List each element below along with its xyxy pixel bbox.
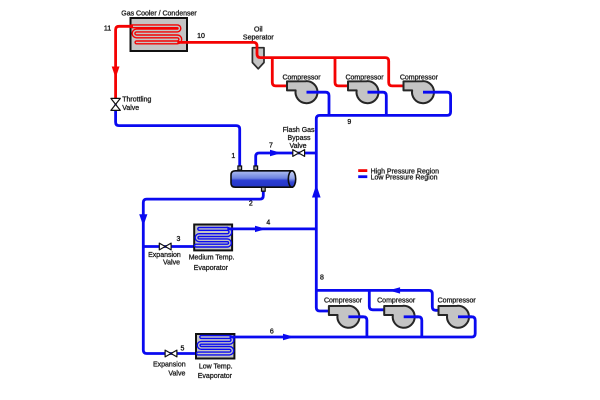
MT expansion valve XV1 xyxy=(159,243,171,250)
wire: blue MT expansion branch (node 3) xyxy=(143,245,197,248)
svg-text:Expansion: Expansion xyxy=(148,252,181,259)
svg-text:4: 4 xyxy=(266,219,270,226)
gas cooler / condenser box GC1 xyxy=(131,18,188,51)
wire: blue MT comp1 outlet drop xyxy=(307,92,330,115)
svg-text:Oil: Oil xyxy=(254,26,263,33)
wire: blue LT comp1 suction riser xyxy=(348,317,367,337)
svg-text:Bypass: Bypass xyxy=(288,135,311,142)
wire: red drop to MT compressor 1 xyxy=(272,58,291,86)
svg-text:Low Temp.: Low Temp. xyxy=(199,364,233,371)
legend swatch: low pressure xyxy=(358,175,367,178)
svg-text:Throttling: Throttling xyxy=(122,97,151,104)
wire: blue tank bottom (node 2) to left vertical down to LT branch xyxy=(143,186,263,354)
svg-text:Valve: Valve xyxy=(163,260,180,267)
wire: blue MT evap outlet node 4 to vertical xyxy=(227,227,316,230)
svg-text:Evaporator: Evaporator xyxy=(194,265,229,272)
oil separator OS1 body xyxy=(252,48,264,69)
MT compressor U3 xyxy=(404,81,434,103)
wire: blue from throttling valve to flash tank inlet (node 1) xyxy=(116,104,240,172)
wire: blue LT discharge header to node 8 vertical xyxy=(316,290,444,310)
wire: red gas-cooler coil xyxy=(132,26,181,42)
wire: blue LT evap outlet node 6 suction bus to LT comp3 xyxy=(230,317,476,337)
wire: blue LT comp2 suction riser xyxy=(404,317,422,337)
arrow: blue left on LT discharge header xyxy=(389,287,401,293)
svg-text:Low Pressure Region: Low Pressure Region xyxy=(371,175,438,182)
wire: blue flash gas line (node 7) tank to bypass valve to vertical xyxy=(256,153,317,172)
svg-text:11: 11 xyxy=(104,26,111,33)
legend swatch: high pressure xyxy=(358,169,367,172)
arrow: blue down on left vertical xyxy=(139,214,147,226)
LT expansion valve XV2 xyxy=(165,350,177,357)
wire: blue LT comp1 outlet stub xyxy=(348,315,363,318)
arrow: blue up on long vertical xyxy=(312,185,321,198)
wire: blue LT comp2 discharge drop xyxy=(369,290,388,309)
svg-text:9: 9 xyxy=(347,119,351,126)
svg-text:Evaporator: Evaporator xyxy=(198,373,233,380)
wire: red drop to MT compressor 2 xyxy=(335,58,354,86)
svg-text:6: 6 xyxy=(270,328,274,335)
wire: blue MT comp3 outlet + suction bus + long vertical node 8/9 + LT comp1 feed xyxy=(316,92,450,311)
svg-text:Compressor: Compressor xyxy=(324,297,363,304)
arrow: blue right on flash gas line xyxy=(270,150,282,156)
throttling valve TV1 xyxy=(111,98,120,110)
wire: red drop to throttling valve (node 11) xyxy=(116,26,133,99)
svg-text:Flash Gas: Flash Gas xyxy=(283,127,315,134)
arrow: blue right on node 6 line xyxy=(283,334,295,340)
flash tank FT1 xyxy=(231,171,296,187)
wire: blue LT comp3 outlet stub xyxy=(458,315,472,318)
svg-text:Valve: Valve xyxy=(168,370,185,377)
svg-text:Medium Temp.: Medium Temp. xyxy=(189,255,235,262)
wire: blue LT comp2 outlet stub xyxy=(404,315,419,318)
arrow: red flow down on node-11 drop xyxy=(112,67,120,79)
tank nozzle stub (liquid node 2) xyxy=(262,187,266,191)
svg-text:Expansion: Expansion xyxy=(153,362,186,369)
low temp evaporator box EV2 xyxy=(196,334,234,359)
svg-text:8: 8 xyxy=(320,274,324,281)
svg-text:5: 5 xyxy=(181,346,185,353)
svg-text:Seperator: Seperator xyxy=(243,35,274,42)
LT evaporator coil xyxy=(198,337,232,354)
MT compressor U2 xyxy=(348,81,378,103)
svg-text:10: 10 xyxy=(197,33,205,40)
svg-text:1: 1 xyxy=(231,153,235,160)
svg-text:Valve: Valve xyxy=(122,105,139,112)
LT compressor U4 xyxy=(329,306,359,328)
tank nozzle stub (flash gas node 7) xyxy=(254,166,258,170)
svg-text:Compressor: Compressor xyxy=(438,297,477,304)
svg-text:Compressor: Compressor xyxy=(377,297,416,304)
medium temp evaporator box EV1 xyxy=(194,225,232,251)
LT compressor U5 xyxy=(384,306,414,328)
svg-text:2: 2 xyxy=(249,200,253,207)
wire: blue MT comp2 outlet drop xyxy=(368,92,387,115)
svg-text:Gas Cooler / Condenser: Gas Cooler / Condenser xyxy=(121,11,197,18)
svg-text:7: 7 xyxy=(269,142,273,149)
LT compressor U6 xyxy=(439,306,469,328)
MT compressor U1 xyxy=(287,81,317,103)
flash gas bypass valve FGV1 xyxy=(293,150,305,157)
svg-text:Valve: Valve xyxy=(290,143,307,150)
MT evaporator coil + exit line node 4 xyxy=(196,229,230,246)
arrow: blue right on node 4 line xyxy=(255,226,267,232)
wire: red line node 10, gas cooler to oil separator and into it xyxy=(177,42,409,86)
tank nozzle stub (inlet node 1) xyxy=(238,166,242,170)
svg-text:3: 3 xyxy=(177,236,181,243)
